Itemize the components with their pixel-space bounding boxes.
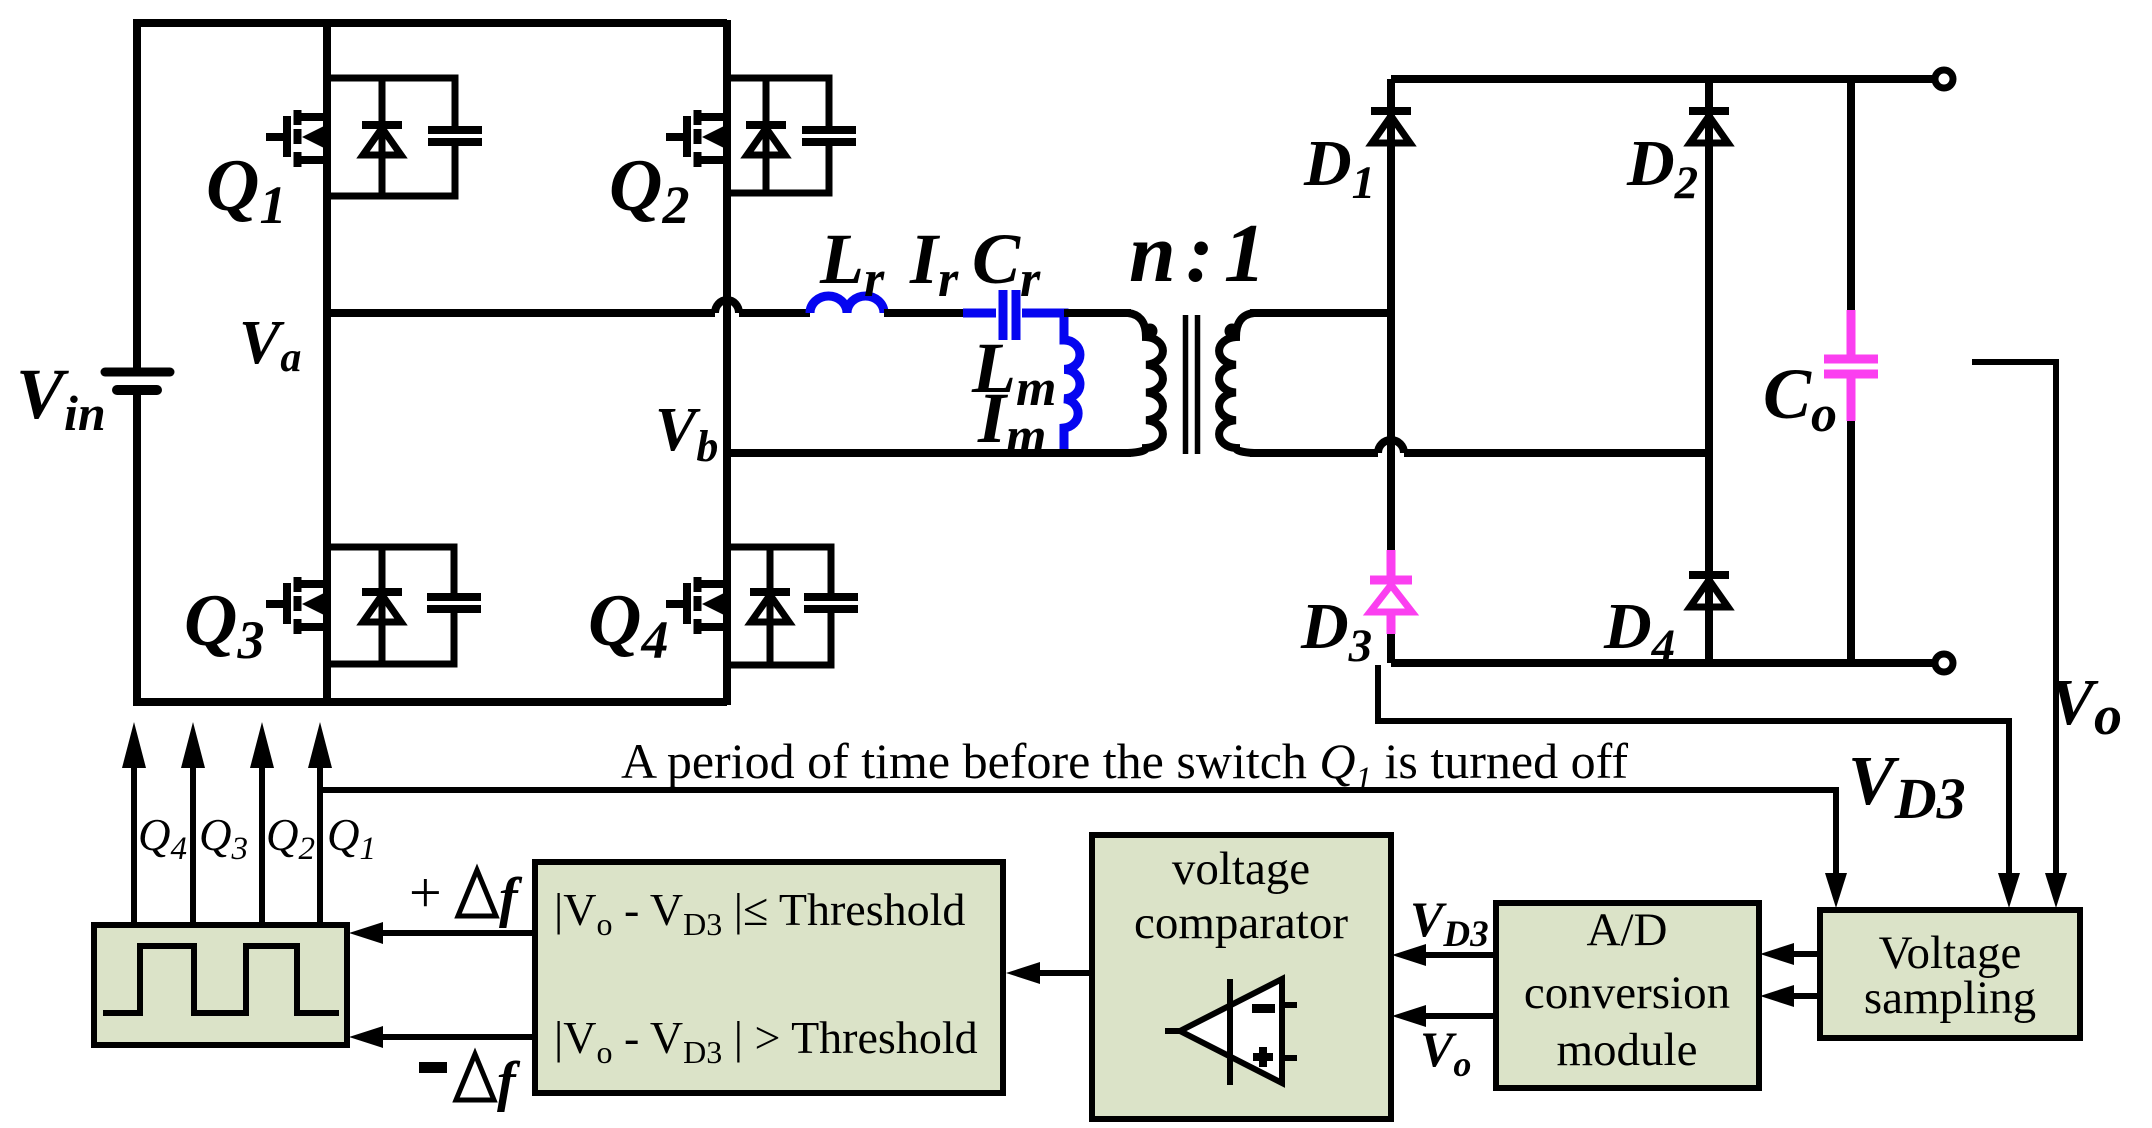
transistor Q4 body arrow [702, 592, 727, 617]
block threshold decision [535, 862, 1003, 1093]
capacitor Cr [963, 309, 996, 318]
arrow A/D to comparator (Vo) [1425, 1013, 1496, 1019]
arrow comparator to threshold [1039, 970, 1092, 976]
output terminal + [1935, 70, 1953, 88]
svg-text:A period of time before the sw: A period of time before the switch Q1 is… [621, 733, 1628, 797]
svg-text:A/D: A/D [1587, 904, 1668, 956]
wire right bridge leg [723, 20, 731, 705]
transistor Q2 body arrow [702, 125, 727, 150]
transistor Q4 snubber box [727, 547, 831, 665]
wire tank top to transformer [1064, 309, 1131, 317]
transistor Q3 snubber box [327, 547, 454, 664]
block PWM generator [94, 925, 347, 1045]
gate drive arrow Q1 [317, 767, 323, 925]
arrow +df threshold to PWM [382, 930, 535, 936]
transformer primary winding [1128, 313, 1163, 453]
inductor Lm (magnetizing) [1060, 313, 1080, 456]
svg-text:|Vo - VD3 |≤ Threshold: |Vo - VD3 |≤ Threshold [554, 884, 965, 942]
arrow -df threshold to PWM [382, 1034, 535, 1040]
transformer core [1186, 315, 1198, 454]
svg-text:voltage: voltage [1172, 843, 1310, 895]
transformer secondary dot [1225, 324, 1240, 339]
body diode of Q1 [379, 78, 386, 196]
wire between Lr and Cr [884, 309, 965, 317]
svg-text:|Vo - VD3 | > Threshold: |Vo - VD3 | > Threshold [554, 1012, 978, 1070]
diode D2 [1689, 111, 1729, 143]
capacitor Co (highlighted) [1824, 310, 1878, 421]
diode D3 (highlighted) [1370, 550, 1412, 634]
svg-text:module: module [1557, 1024, 1698, 1076]
battery Vin plates [105, 368, 170, 377]
gate drive arrow Q3 [190, 767, 196, 925]
body diode of Q4 [767, 547, 774, 665]
wire rectifier leg2 [1705, 79, 1713, 663]
inductor Lr [810, 296, 884, 313]
capacitor Co branch wire [1847, 79, 1855, 663]
transistor Q2 snubber box [727, 78, 829, 193]
transformer primary dot [1143, 324, 1158, 339]
wire rectifier bottom rail [1391, 659, 1944, 667]
gate drive arrow Q2 [259, 767, 265, 925]
svg-text:sampling: sampling [1864, 972, 2036, 1024]
wire rectifier top rail [1391, 75, 1944, 83]
transistor Q4 MOSFET symbol [666, 577, 727, 634]
transistor Q3 MOSFET symbol [266, 577, 327, 634]
wire Vo tap to voltage sampling [1972, 362, 2056, 874]
wire bottom rail [137, 698, 727, 706]
svg-text:+: + [409, 860, 442, 925]
op-amp comparator symbol [1180, 979, 1282, 1083]
body diode of Q3 [379, 547, 386, 664]
wire Va to tank with hop over right leg [327, 309, 810, 317]
transistor Q2 MOSFET symbol [666, 110, 727, 167]
arrow A/D to comparator (VD3) [1425, 952, 1496, 958]
arrow sampling to A/D (upper) [1793, 951, 1820, 957]
wire rectifier leg1 [1387, 79, 1395, 663]
wire secondary bottom, hop over leg1, to leg2 [1250, 449, 1709, 457]
square wave inside PWM block [103, 946, 339, 1013]
wire Q1 timing line to voltage sampling [320, 790, 1836, 874]
wire Vin vertical [133, 19, 141, 706]
arrow sampling to A/D (lower) [1793, 993, 1820, 999]
capacitor of Q3 [427, 597, 481, 609]
svg-text:conversion: conversion [1524, 967, 1730, 1019]
capacitor of Q2 [802, 130, 856, 142]
capacitor of Q4 [804, 597, 858, 609]
transistor Q1 snubber box [327, 78, 455, 196]
output terminal - [1935, 654, 1953, 672]
transistor Q1 MOSFET symbol [266, 110, 327, 167]
wire left bridge leg [323, 20, 331, 705]
block A/D conversion module [1496, 903, 1759, 1088]
block voltage sampling [1820, 910, 2080, 1038]
transformer secondary winding [1219, 313, 1254, 453]
label -delta f [419, 1062, 447, 1073]
svg-text:n:1: n:1 [1129, 207, 1276, 300]
wire Vb to transformer bottom [727, 449, 1131, 457]
block voltage comparator [1092, 835, 1391, 1119]
transistor Q3 body arrow [302, 592, 327, 617]
svg-text:comparator: comparator [1134, 897, 1348, 949]
transistor Q1 body arrow [302, 125, 327, 150]
gate drive arrow Q4 [131, 767, 137, 925]
wire D3 tap to voltage sampling [1378, 665, 2009, 874]
diode D1 [1371, 111, 1411, 143]
wire top rail [137, 19, 727, 27]
body diode of Q2 [763, 78, 770, 193]
wire secondary top to rectifier leg1 [1250, 309, 1391, 317]
diode D4 [1689, 575, 1729, 607]
capacitor of Q1 [428, 130, 482, 142]
